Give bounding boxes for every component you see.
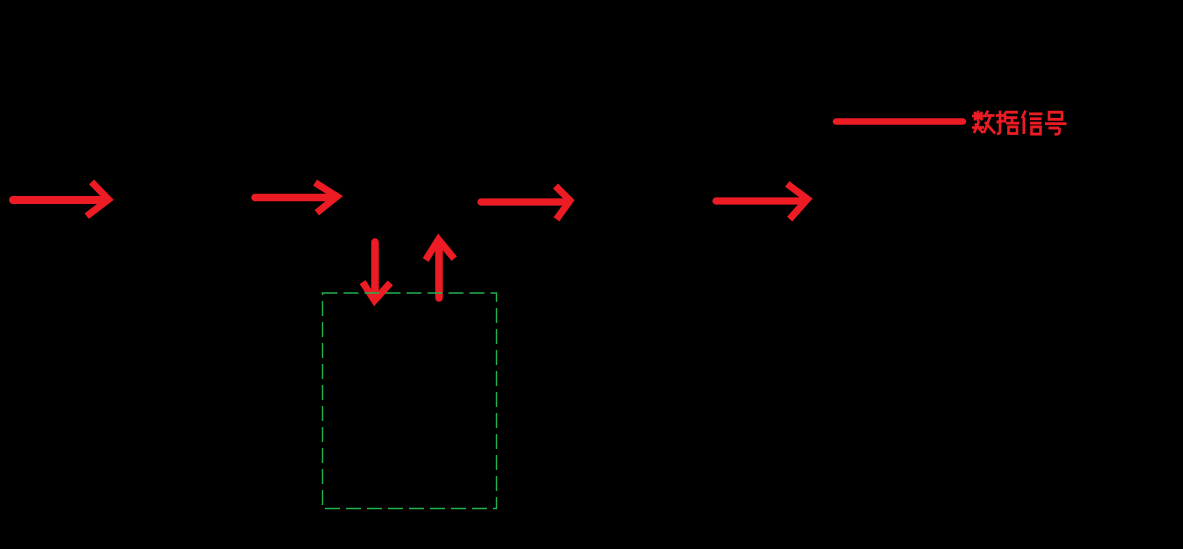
glyph 据: [996, 111, 1019, 134]
arrow 2 (block 1 to block 2): [255, 185, 337, 211]
label text: 数据信号 (hand-drawn glyph strokes): [972, 111, 1067, 135]
arrow up (out of dashed box): [428, 240, 453, 299]
glyph 信: [1022, 111, 1043, 134]
arrow 1 (input to block 1): [13, 185, 109, 215]
dashed green box (channel): [323, 293, 497, 509]
glyph 号: [1045, 112, 1067, 134]
glyph 数: [972, 111, 995, 134]
arrow 4 (block 3 to output): [716, 186, 808, 217]
arrow 3 (block 2 to block 3): [481, 189, 570, 217]
legend line (red sample line): [836, 118, 963, 125]
arrow down (into dashed box): [365, 242, 389, 301]
